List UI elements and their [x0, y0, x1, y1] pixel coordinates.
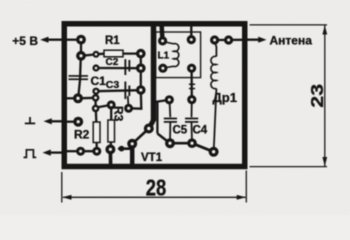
wire board to pad P1 [66, 39, 81, 41]
pad P28c [187, 95, 196, 104]
node pulse arrowhead [43, 150, 51, 156]
inductor L1 coil [163, 42, 179, 69]
wire P9 to P10 [78, 97, 96, 100]
wire antenna out [243, 39, 260, 41]
pad P25 [158, 36, 167, 45]
wire C3 to P13 [127, 96, 130, 107]
wire C1 branch P2 to P9 [78, 56, 81, 99]
ground symbol [25, 117, 35, 123]
pad P18 [144, 124, 154, 134]
pad P22 [209, 147, 219, 157]
choke Dr1 coil [211, 56, 216, 88]
pad P23 [210, 35, 219, 44]
svg-text:C1: C1 [91, 74, 107, 88]
pulse input symbol [24, 150, 37, 158]
node +5V arrowhead [40, 37, 48, 43]
wire ground entry [51, 120, 65, 122]
capacitor C1 plates [69, 75, 89, 80]
node antenna arrowhead [258, 37, 266, 43]
capacitor C2 plates [124, 59, 130, 75]
pad P4 [136, 49, 146, 59]
wire elbow P8 to P13 [129, 90, 142, 109]
wire P1 to P2 [80, 40, 82, 56]
pad P2 [76, 51, 86, 61]
wire P16 to P15 [81, 150, 97, 152]
pad P17 [73, 117, 83, 127]
dimension line 28 [63, 196, 246, 198]
pad P7 [92, 88, 99, 95]
pad P9 [73, 93, 83, 103]
wire +5V entry [48, 39, 67, 41]
wire P2 to P3 [81, 54, 96, 55]
svg-text:+5 В: +5 В [12, 34, 38, 48]
pad P6 [136, 63, 146, 73]
dimension 23 arrowheads [322, 25, 327, 166]
pad P5 [92, 64, 99, 71]
wire board to P17 [66, 121, 78, 123]
wire stub board to P25 [159, 25, 164, 41]
resistor R2 [93, 122, 100, 143]
pad P11 [92, 105, 100, 113]
wire antenna P23 to P24 to board [215, 39, 244, 42]
resistor R1 [104, 50, 123, 57]
dimension 23 [250, 25, 328, 167]
wire P21 to P22 [192, 143, 214, 152]
svg-text:23: 23 [308, 84, 327, 108]
wire P10 to P11 [94, 98, 96, 109]
dimension 28 [62, 171, 247, 203]
pad P19 [127, 139, 137, 149]
wire P19 to board bottom [130, 144, 135, 165]
wire pulse entry [50, 151, 65, 153]
wire P14 to board bottom [109, 149, 113, 164]
wire P18 to P19 [132, 129, 149, 144]
wire C5 lead bottom [169, 123, 171, 144]
svg-text:VT1: VT1 [141, 152, 163, 164]
pad P16 [76, 147, 85, 156]
svg-text:Др1: Др1 [213, 90, 237, 105]
wire VT1 stub [119, 147, 130, 150]
extension line top [250, 24, 328, 26]
svg-text:C3: C3 [106, 79, 120, 91]
wire stub board to P26 [190, 26, 192, 40]
pad P29 [165, 95, 174, 104]
wire C4 column P28 to P28c [190, 68, 192, 99]
board outline [64, 24, 245, 167]
dimension 28 arrowheads [62, 195, 246, 200]
wire P20 to P21 [170, 142, 192, 145]
extension line right [245, 171, 247, 203]
wire C2 row P5 to P6 [96, 67, 141, 69]
svg-text:C5: C5 [173, 125, 188, 137]
pad VT1 stub [119, 146, 125, 152]
wire board to P9 [66, 97, 78, 99]
wire C4 lead top [191, 100, 193, 118]
pad P21 [187, 138, 197, 148]
capacitor C5 plates [164, 118, 177, 123]
extension line bottom [250, 166, 328, 168]
wire branch trace down [156, 101, 158, 134]
extension line left [61, 172, 63, 203]
wire P11 to P12 [96, 105, 112, 108]
wire P3 to R1 [96, 53, 105, 56]
wire junction to P29 [155, 100, 170, 102]
wire P12 to R3 [110, 105, 112, 120]
wire P11 to R2 [95, 108, 98, 122]
pad P26 [187, 35, 196, 44]
pad P10 [92, 94, 100, 102]
pad holes [76, 38, 230, 154]
wire choke lead top [215, 40, 217, 57]
pad P28 [187, 64, 196, 73]
wire thick trace to P18 [149, 120, 153, 128]
wire R1 to P4 [122, 52, 141, 54]
wire C3 row P7 to P8 [96, 90, 141, 91]
wire column P4-P6-P8 [140, 54, 142, 90]
pad P3 [93, 51, 100, 58]
resistor R3 [108, 120, 115, 142]
svg-text:Антена: Антена [270, 33, 313, 47]
node ground arrowhead [44, 118, 52, 124]
pads [73, 35, 233, 157]
wire thick vertical trace [151, 24, 157, 122]
svg-text:28: 28 [146, 176, 166, 201]
svg-text:R2: R2 [74, 128, 90, 142]
wire C4 lead bottom [191, 123, 194, 144]
pad P1 [76, 35, 86, 45]
pad P13 [124, 104, 133, 113]
svg-text:C4: C4 [193, 125, 208, 137]
pad P27 [158, 64, 167, 73]
svg-text:C2: C2 [106, 57, 119, 68]
svg-text:R1: R1 [105, 35, 120, 47]
pad P12 [107, 100, 116, 109]
pad P24 [224, 35, 233, 44]
wire branch to P20 [157, 134, 170, 144]
pad P8 [136, 85, 146, 95]
wire C5 lead top [169, 100, 172, 117]
pad P15 [92, 147, 101, 156]
wire board to P16 [66, 150, 81, 152]
wire R2 to P15 [95, 142, 98, 151]
svg-text:L1: L1 [158, 50, 170, 61]
pad P14 [105, 144, 115, 154]
wire R3 to P14 [109, 142, 112, 150]
capacitor C3 plates [124, 82, 130, 100]
wire choke lead bottom [214, 89, 217, 152]
inductor L1 box [156, 32, 201, 78]
pad P20 [165, 138, 175, 148]
dimension line 23 [324, 26, 326, 167]
capacitor C4 plates [185, 84, 198, 123]
